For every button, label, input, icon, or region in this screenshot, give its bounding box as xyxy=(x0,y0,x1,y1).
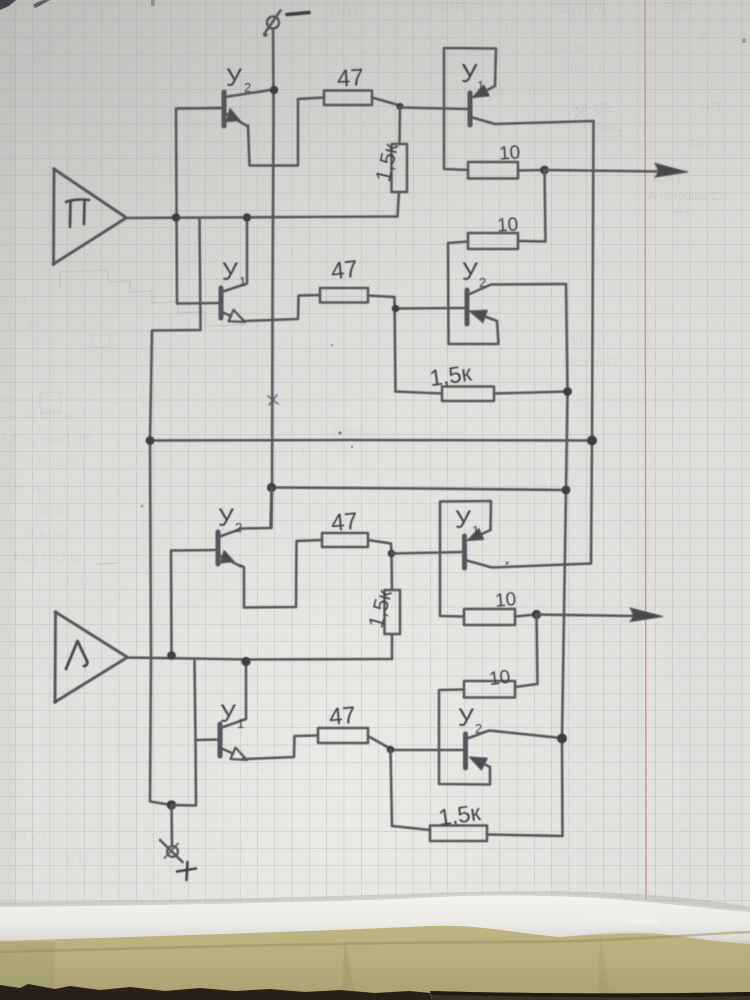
svg-text:б=(б-1)·зг: б=(б-1)·зг xyxy=(432,42,494,58)
base wire xyxy=(176,107,224,110)
wire: R8 bottom to Л wire xyxy=(391,634,394,659)
emitter xyxy=(465,560,591,568)
svg-text:2: 2 xyxy=(479,275,486,290)
wire: Л output horizontal xyxy=(127,658,392,660)
svg-text:н: н xyxy=(95,117,103,133)
svg-text:фель: фель xyxy=(330,422,364,438)
node: Y1 collector tap on Л wire xyxy=(241,657,250,666)
node: base tap on П wire xyxy=(172,213,180,221)
transistor Y2 (upper-right) xyxy=(396,284,566,324)
svg-text:счЗ: счЗ xyxy=(60,849,83,865)
svg-text:10: 10 xyxy=(498,142,521,164)
svg-text:е: е xyxy=(690,107,698,123)
svg-text:з: з xyxy=(640,747,647,764)
label 10 R3 xyxy=(498,142,521,164)
svg-text:1: 1 xyxy=(237,716,244,731)
svg-text:с: с xyxy=(700,27,707,43)
resistor R1 47 xyxy=(324,91,372,106)
collector riser xyxy=(221,662,247,729)
base bar xyxy=(218,724,223,756)
node D junction (lower-right Y2 base tap) xyxy=(387,746,395,754)
svg-text:НУл: НУл xyxy=(665,0,693,16)
wire: R7 right to node C riser xyxy=(368,540,392,590)
wire: bus B right vertical (emitter bus) xyxy=(591,121,594,564)
emitter with arrow xyxy=(225,113,248,127)
wire: R3 to output node xyxy=(518,169,544,172)
collector riser xyxy=(222,218,248,292)
wire: long middle rail 1 xyxy=(150,439,592,442)
arrowhead upper output xyxy=(655,164,688,178)
wire: П output horizontal xyxy=(126,217,397,219)
node: rail1 left xyxy=(146,436,155,445)
svg-text:А-г,строшц СЛ: А-г,строшц СЛ xyxy=(648,189,727,203)
wire: R4 left to Y2 upper-right emitter loop xyxy=(448,242,499,345)
base bar xyxy=(462,536,467,568)
box collector loop xyxy=(440,501,491,617)
wire: cross-coupling from П wire down-left xyxy=(150,219,201,805)
node B junction (Y2 base tap) xyxy=(392,305,400,313)
resistor R9 10 (lower output top) xyxy=(464,609,515,625)
svg-text:ЬдЗ: ЬдЗ xyxy=(10,52,36,68)
resistor R3 10 (upper output top) xyxy=(468,162,518,179)
base wire riser xyxy=(171,550,218,656)
dark marks at top edge of photo xyxy=(0,0,16,10)
svg-text:е: е xyxy=(190,112,198,128)
wire: output node down to R4 xyxy=(518,170,546,242)
wire: R9 right to lower output node xyxy=(515,615,536,617)
transistor Y2 (lower-right) xyxy=(391,731,562,769)
node: lower output junction xyxy=(532,610,541,619)
svg-text:1х: 1х xyxy=(688,135,704,152)
label Y1 (lower-right) xyxy=(455,506,479,538)
base bar xyxy=(219,288,224,318)
label 47 R5 xyxy=(330,256,359,286)
wire: R10 left to Y2 lower-right emitter loop xyxy=(439,690,490,785)
svg-text:У: У xyxy=(462,258,478,286)
svg-text:ЧП: ЧП xyxy=(700,99,721,116)
collector diagonal with inward arrow xyxy=(474,86,495,97)
base bar xyxy=(216,532,221,564)
wire: R6 left xyxy=(396,392,443,394)
wire: negative rail vertical xyxy=(272,29,274,488)
svg-text:1: 1 xyxy=(472,523,479,538)
svg-text:г ч: г ч xyxy=(10,292,26,308)
emitter with arrow xyxy=(222,312,232,316)
svg-text:(Че(= г: (Че(= г xyxy=(560,59,604,75)
resistor R12 1,5k horizontal xyxy=(430,826,487,842)
node: plus rail junction xyxy=(167,800,177,810)
wire: lower output with arrow xyxy=(537,615,635,617)
node A junction xyxy=(396,103,403,110)
svg-text:а УГгЧ Ube = ЧдЗ: а УГгЧ Ube = ЧдЗ xyxy=(435,82,549,98)
svg-text:У: У xyxy=(222,258,238,286)
svg-text:я з: я з xyxy=(8,27,26,43)
wire: Y1 emitter loop to R5 xyxy=(243,295,320,321)
arrowhead lower output xyxy=(630,608,663,622)
wire: node D down to R12 xyxy=(391,750,431,831)
wire: node C to Y1 base (lower-right) xyxy=(392,552,465,554)
svg-text:г: г xyxy=(60,0,66,15)
wire: rail to lower Y2 collector xyxy=(270,488,273,529)
collector xyxy=(466,731,561,740)
svg-text:ШУЛУД: ШУЛУД xyxy=(555,0,607,17)
box collector loop xyxy=(444,48,496,170)
arrow on Y2 lower-right emitter (inward) xyxy=(470,757,488,770)
label 10 R4 xyxy=(496,214,519,236)
pencil specks xyxy=(141,344,509,565)
svg-text:У: У xyxy=(226,64,242,92)
faint pencil ghost shapes (construction marks showing through) xyxy=(40,104,622,564)
base bar xyxy=(468,93,473,125)
node: R6 on bus A xyxy=(563,387,572,396)
dark strip at very bottom (table edge) xyxy=(0,984,432,1000)
collector xyxy=(225,90,275,98)
svg-text:2: 2 xyxy=(475,721,482,736)
svg-text:У: У xyxy=(458,704,474,732)
svg-text:У: У xyxy=(220,700,236,728)
wire: R5 right to node B riser xyxy=(368,296,396,392)
label 1,5к R6 xyxy=(428,359,474,391)
amplifier П (input buffer, upper channel) xyxy=(52,167,126,266)
svg-text:47: 47 xyxy=(330,256,359,286)
transistor Y1 (upper-right, boxed) xyxy=(444,48,594,170)
label 47 R11 xyxy=(328,702,357,731)
svg-text:щ: щ xyxy=(300,339,312,355)
resistor R11 47 xyxy=(318,728,368,743)
riser continues to plus rail xyxy=(194,740,197,805)
yellow table surface xyxy=(0,926,750,1000)
svg-text:47: 47 xyxy=(336,64,364,92)
transistor Y2 (upper-left) xyxy=(176,90,274,127)
label Y2 (upper-right) xyxy=(462,258,486,290)
svg-text:10: 10 xyxy=(494,589,517,612)
collector riser to rail2 node xyxy=(219,488,272,537)
wire: upper output with arrow xyxy=(545,170,660,172)
base wire riser from Л wire xyxy=(195,661,221,740)
label Л xyxy=(66,641,87,669)
small x mark on negative rail xyxy=(268,395,278,405)
svg-text:щ: щ xyxy=(310,777,322,794)
svg-text:У: У xyxy=(218,504,234,532)
svg-text:ц: ц xyxy=(505,17,513,33)
svg-text:10: 10 xyxy=(496,214,519,236)
wire: R11 right to node D xyxy=(368,736,390,749)
transistor Y2 (lower-left) xyxy=(171,488,272,656)
wire: Y2 emitter loop to resistor 47 R1 xyxy=(248,98,324,166)
node: Y2 base tap on Л wire xyxy=(167,651,176,660)
label Y2 (lower-left) xyxy=(218,504,242,535)
svg-text:ЦбЬ ё: ЦбЬ ё xyxy=(545,39,584,55)
base wire xyxy=(391,749,466,752)
svg-text:У: У xyxy=(455,506,471,534)
base bar xyxy=(465,290,470,324)
emitter xyxy=(471,117,594,124)
base bar xyxy=(222,92,227,126)
node: Y2 collector on negative rail xyxy=(270,86,278,94)
resistor R2 1,5k vertical xyxy=(392,144,408,192)
collector diagonal with inward arrow xyxy=(469,530,491,540)
resistor R10 10 (lower output bottom) xyxy=(464,681,515,698)
resistor R8 1,5k vertical xyxy=(385,590,401,634)
svg-text:▭ ⌐: ▭ ⌐ xyxy=(672,202,694,216)
svg-text:Вс: Вс xyxy=(448,21,464,37)
svg-text:2: 2 xyxy=(235,520,242,535)
arrow on Y2 upper-right emitter (inward) xyxy=(470,310,488,322)
node: rail2 right on bus A xyxy=(562,486,571,495)
red margin line xyxy=(645,0,646,905)
label 10 R10 xyxy=(488,667,512,690)
transistor Y1 (lower-right, boxed) xyxy=(440,501,591,617)
wire: node A to Y1 base (upper-right) xyxy=(400,108,467,110)
label 1,5к R8 xyxy=(365,587,397,631)
wire: Y1 lower emitter loop to R11 xyxy=(243,736,318,760)
plus sign xyxy=(177,862,196,880)
collector xyxy=(468,284,567,295)
emitter with arrow xyxy=(221,748,234,754)
resistor R5 47 xyxy=(320,288,368,303)
label Y2 (upper-left) xyxy=(226,64,251,95)
svg-text:1: 1 xyxy=(477,78,484,93)
svg-text:х: х xyxy=(700,627,708,644)
label Y1 (upper-left second) xyxy=(222,258,246,289)
wire: node A down to R2 xyxy=(398,107,401,145)
minus sign xyxy=(287,13,309,15)
amplifier Л (input buffer, lower channel) xyxy=(53,610,127,704)
label Y1 (upper-right) xyxy=(461,58,484,93)
wire: Y2 lower emitter loop to R7 xyxy=(239,540,322,608)
svg-text:10: 10 xyxy=(488,667,512,690)
label 1,5к R12 xyxy=(437,799,483,831)
transistor Y1 (lower-left second) xyxy=(195,661,248,805)
wire: lower output node down to R10 xyxy=(515,615,538,688)
wire: long middle rail 2 xyxy=(272,488,566,491)
transistor Y1 (upper-left second) xyxy=(176,108,247,322)
wire: R1 to node A xyxy=(372,98,400,106)
node: rail2 left on negative rail xyxy=(267,483,276,492)
svg-text:д: д xyxy=(680,547,689,564)
svg-text:НЕУ-ч О: НЕУ-ч О xyxy=(562,353,617,369)
lower paper stack edge xyxy=(0,894,750,944)
label Y1 (lower-left second) xyxy=(220,700,244,731)
svg-text:иЗУ щ - ЛЬ г: иЗУ щ - ЛЬ г xyxy=(4,479,84,495)
label 10 R9 xyxy=(494,589,517,612)
wire: R2 bottom to П wire xyxy=(398,192,400,217)
svg-text:л: л xyxy=(500,757,509,774)
negative supply terminal xyxy=(264,11,280,36)
svg-text:л: л xyxy=(302,112,310,128)
label 47 R1 xyxy=(336,64,364,92)
node: upper output junction xyxy=(540,166,549,175)
node: Y2 collector on bus A xyxy=(557,734,567,744)
svg-text:ЧЬЬ Зч: ЧЬЬ Зч xyxy=(20,527,67,543)
resistor R6 1,5k horizontal xyxy=(442,387,494,402)
svg-text:нО щ: нО щ xyxy=(35,502,70,518)
resistor R7 47 xyxy=(322,533,368,547)
svg-text:ЗдЫч: ЗдЫч xyxy=(4,317,40,333)
wire: bus A right vertical (collector bus) xyxy=(487,284,568,836)
resistor R4 10 (upper output bottom) xyxy=(468,233,518,249)
svg-text:АЦс ЫО tc: АЦс ЫО tc xyxy=(12,549,81,565)
label Y2 (lower-right) xyxy=(458,704,482,736)
svg-text:т: т xyxy=(300,442,307,458)
base bar xyxy=(463,734,468,768)
base wire xyxy=(396,307,467,310)
svg-text:1: 1 xyxy=(239,274,246,289)
svg-text:2: 2 xyxy=(244,80,251,95)
svg-text:УгЛИН: УгЛИН xyxy=(420,0,466,16)
svg-text:47: 47 xyxy=(330,508,359,537)
base wire riser from П node xyxy=(176,108,224,304)
wire: plus rail stem xyxy=(172,804,197,807)
emitter with arrow xyxy=(219,555,242,567)
svg-text:У: У xyxy=(461,58,478,88)
label 1,5к R2 xyxy=(372,141,403,184)
svg-text:б: б xyxy=(710,77,718,93)
svg-text:а зЫг: а зЫг xyxy=(62,572,98,588)
label П xyxy=(66,200,89,227)
svg-text:ес - дч ц: ес - дч ц xyxy=(30,453,85,469)
node: collector tap on П wire xyxy=(243,213,251,221)
svg-text:ИДУ: ИДУ xyxy=(330,2,361,19)
svg-text:ЦЕх - ЫчД цЗ: ЦЕх - ЫчД цЗ xyxy=(2,431,91,447)
wire: R6 right to bus A xyxy=(494,392,568,394)
node C junction (lower Y1 base tap) xyxy=(388,550,396,558)
label 47 R7 xyxy=(330,508,359,537)
svg-text:47: 47 xyxy=(328,702,357,731)
svg-text:ч: ч xyxy=(205,0,213,17)
node: rail1 right on bus B xyxy=(587,436,597,446)
positive supply terminal xyxy=(160,840,183,862)
svg-text:дЗ уч: дЗ уч xyxy=(10,827,45,843)
